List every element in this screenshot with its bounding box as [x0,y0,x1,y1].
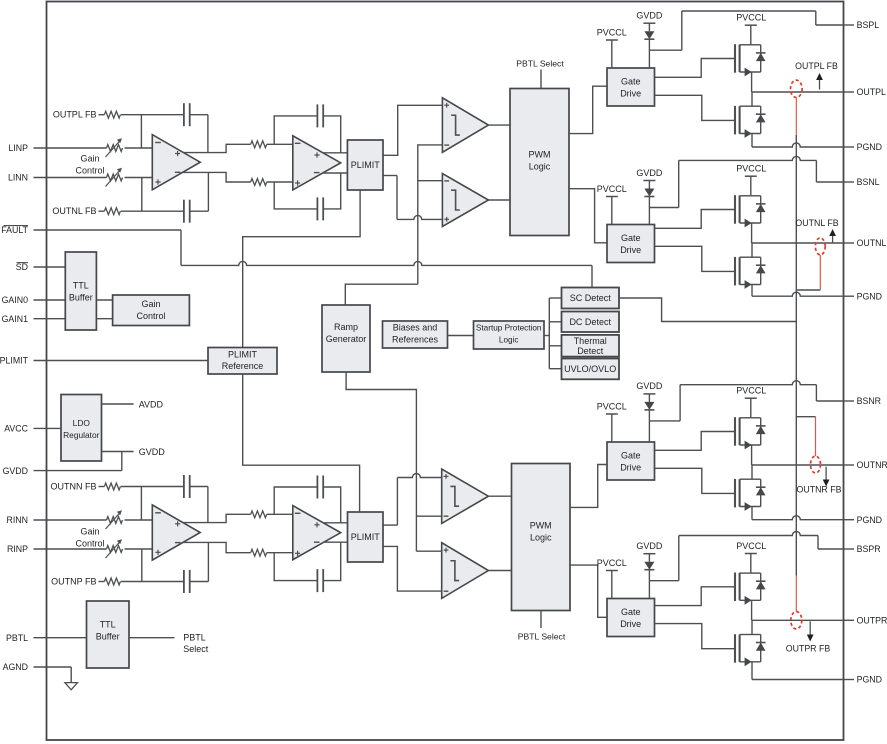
transistor Q8 drain wire [740,634,752,636]
transistor Q6 drain wire [740,478,752,480]
transistor Q3 (high-side) gate [734,195,736,224]
output current sense line (vertical) [795,135,797,576]
svg-text:Generator: Generator [326,334,367,344]
pin GVDD stub wire [34,470,122,472]
sense branch to OUTNR [796,416,815,418]
wire AVDD output [102,403,134,405]
comparator U8 (bottom) [442,543,489,599]
wire TTL buffer to Gain Control (GAIN0 row) [96,299,112,301]
svg-text:SC Detect: SC Detect [570,293,612,303]
svg-text:Gate: Gate [621,233,641,243]
svg-text:GVDD: GVDD [139,447,166,457]
pin RINP stub wire [34,548,107,550]
pin PLIMIT stub wire [34,360,209,362]
current sense ellipse OUTNR [811,456,821,473]
wire PWM to Gate Drive 4 [570,565,607,617]
wire GVDD junction into Gate Drive 2 (OUTNL) [648,208,650,225]
svg-text:OUTNL FB: OUTNL FB [52,206,96,216]
wire U2 upper feedback to output [323,116,341,153]
svg-text:OUTNP FB: OUTNP FB [51,577,96,587]
wire ramp bus to U7-/U8+ inputs [416,515,441,517]
op-amp U1 (left input amp) [152,135,200,190]
svg-text:DC Detect: DC Detect [569,317,611,327]
variable resistor (LINN gain) [107,174,123,181]
block PLIMIT (bottom) [348,512,384,562]
svg-text:PBTL Select: PBTL Select [516,59,564,69]
block Startup Protection Logic [474,321,545,349]
svg-text:Gain: Gain [80,154,99,164]
svg-text:GAIN0: GAIN0 [2,295,29,305]
wire Ramp Generator to top comparator bus [345,284,418,305]
pin BSPL stub wire [844,24,855,26]
svg-text:BSNR: BSNR [857,396,881,406]
transistor Q4 source to PGND [740,284,761,286]
svg-text:GVDD: GVDD [3,466,28,476]
svg-text:Drive: Drive [620,619,641,629]
svg-text:SD: SD [16,262,28,272]
pin SD stub wire [34,266,66,268]
block PLIMIT Reference [208,348,277,375]
svg-text:PBTL: PBTL [183,633,206,643]
wire cap to output node (bottom) [190,210,209,212]
svg-text:Buffer: Buffer [69,293,93,303]
sense line red segment (OUTPL) [795,97,797,135]
transistor Q3 source to output [740,222,761,224]
wire PLIMIT Reference down to PLIMIT(bottom) [243,374,360,512]
wire U2 upper feedback [274,116,317,144]
svg-text:Control: Control [75,539,104,549]
resistor on OUTNP FB line [99,581,105,583]
wire U2 outputs to PLIMIT [323,152,348,154]
resistor R (to U6 non-inverting) [251,549,267,556]
pin BSNL stub wire [844,181,855,183]
pin LINP stub wire [34,147,107,149]
resistor R (to U6 inverting) [251,511,267,518]
wire U6 upper feedback to output [323,487,341,523]
feedback arrow OUTNL FB [832,234,834,244]
capacitor C (OUTNL feedback) [183,200,185,223]
wire AGND to ground [70,667,72,683]
svg-text:Detect: Detect [577,346,604,356]
pin OUTNL stub wire [844,242,855,244]
resistor on OUTNN FB line [99,486,105,488]
wire PBTL Select stub (top) [540,70,542,89]
GVDD supply bar (section 2 (OUTNL)) [643,180,655,182]
wire SC Detect to output sense line [619,298,796,322]
wire gate drive output to high-side gate (section 3 (OUTNR)) [655,432,736,451]
pin OUTPR stub wire [844,619,855,621]
transistor Q7 (high-side) gate [734,573,736,602]
svg-text:BSNL: BSNL [857,177,880,187]
pin AGND stub wire [34,666,72,668]
body diode (low-side 2 (OUTNL)) [752,256,761,258]
wire GVDD junction into Gate Drive 4 (OUTPR) [648,581,650,599]
wire LINP to op-amp [125,147,153,149]
wire to PGND pin (section 4 (OUTPR)) [752,679,844,681]
wire gate drive output to high-side gate (section 2 (OUTNL)) [655,210,736,229]
body diode (low-side 3 (OUTNR)) [752,478,761,480]
transistor Q7 drain to PVCCL [740,572,751,574]
wire FB junction to RINN [140,487,142,521]
wire U1 lower output [183,172,251,182]
current sense ellipse OUTPL [791,80,803,97]
svg-text:RINN: RINN [6,515,28,525]
wire U6 lower feedback to output [323,542,341,580]
svg-text:PWM: PWM [530,521,552,531]
block PWM Logic (bottom) [512,464,571,611]
svg-text:Thermal: Thermal [574,336,607,346]
pin OUTNR stub wire [844,464,855,466]
feedback arrow OUTPR FB [809,621,811,636]
op-amp U2 (left second stage) [293,136,341,190]
op-amp U6 (right second stage) [293,506,341,560]
pin FAULT stub wire [34,229,182,231]
svg-text:BSPR: BSPR [857,544,881,554]
resistor R (to U2 non-inverting) [251,179,267,186]
sense red segment (OUTNL) [819,255,821,290]
wire PWM to Gate Drive 3 [570,465,607,508]
svg-text:PGND: PGND [857,515,882,525]
svg-text:PLIMIT: PLIMIT [351,532,381,542]
svg-text:LINP: LINP [8,143,28,153]
resistor on OUTPL FB line [99,114,105,116]
wire OUTNP FB rail [121,581,184,583]
current sense ellipse OUTNL [815,238,825,255]
svg-text:OUTPR: OUTPR [857,616,887,626]
wire bootstrap junction to BS pin (section 1 (OUTPL)) [649,49,681,51]
transistor Q8 (low-side) gate [734,634,736,663]
svg-text:PVCCL: PVCCL [736,164,766,174]
ground symbol AGND [65,683,78,690]
block Thermal Detect [562,335,620,357]
svg-text:PVCCL: PVCCL [597,184,627,194]
wire U6 lower feedback [274,553,317,581]
svg-text:Control: Control [136,311,165,321]
transistor Q6 source to PGND [740,506,761,508]
svg-text:GVDD: GVDD [636,541,663,551]
svg-text:PVCCL: PVCCL [597,558,627,568]
transistor Q4 (low-side) gate [734,257,736,286]
wire PBTL Select stub (bottom) [540,611,542,629]
block DC Detect [562,312,620,333]
capacitor C (U6 upper feedback) [316,476,318,499]
pin PGND stub wire [844,519,855,521]
pin GAIN1 stub wire [34,318,66,320]
wire to U6 inverting input [267,513,293,515]
block Ramp Generator [322,305,370,372]
wire protection bus to detect blocks [544,335,549,337]
svg-text:PBTL: PBTL [6,633,28,643]
pin PGND stub wire [844,295,855,297]
capacitor C (U6 lower feedback) [316,569,318,592]
wire RINP to op-amp [125,548,153,550]
wire U5 upper output [183,514,251,522]
svg-text:References: References [392,335,439,345]
wire PLIMIT out to comparator U7+ (hop over ramp bus) [383,524,397,526]
wire U6 upper feedback [274,487,317,514]
wire bootstrap junction to BS pin (section 4 (OUTPR)) [649,580,678,582]
wire output node to OUT pin (section 3 (OUTNR)) [752,464,844,466]
svg-text:GVDD: GVDD [636,381,663,391]
body diode (high-side 3 (OUTNR)) [751,417,761,419]
svg-text:PGND: PGND [857,675,882,685]
wire LINN junction to OUTNL FB rail [141,178,143,212]
transistor Q8 source to PGND [740,661,761,663]
wire to PGND pin (section 1 (OUTPL)) [752,143,844,147]
wire PWM to Gate Drive 2 [569,189,607,243]
wire U2 lower feedback [274,182,317,209]
svg-text:Logic: Logic [499,336,519,345]
PVCCL supply stub Gate Drive 1 (OUTPL) [606,39,618,41]
comparator U3 (top) [442,98,488,153]
wire cap to output node (U5 lower) [190,581,209,583]
body diode (high-side 4 (OUTPR)) [751,572,761,574]
feedback arrow OUTPL FB [819,78,821,90]
capacitor C (OUTNN feedback) [183,475,185,498]
wire bootstrap junction to BS pin (section 3 (OUTNR)) [649,420,680,422]
block Gate Drive 2 (OUTNL) [607,225,655,263]
block SC Detect [562,288,620,309]
feedback arrow OUTNR FB [825,467,827,482]
wire to U2 inverting input [267,143,293,145]
variable resistor (RINN gain) [107,517,123,524]
svg-text:OUTNL: OUTNL [857,238,887,248]
svg-text:TTL: TTL [73,281,89,291]
block Gate Drive 4 (OUTPR) [607,599,655,637]
svg-text:GVDD: GVDD [636,11,663,21]
block TTL Buffer (bottom) [87,601,130,668]
transistor Q1 drain to PVCCL [740,44,751,46]
body diode (high-side 1 (OUTPL)) [751,44,761,46]
wire OUTPL FB rail [121,114,184,116]
wire cap to output node (U5 upper) [190,486,208,488]
transistor Q2 source to PGND [740,133,761,135]
transistor Q4 drain wire [740,256,752,258]
svg-text:AVDD: AVDD [139,399,164,409]
transistor Q3 drain to PVCCL [740,195,751,197]
wire GVDD output [102,451,134,453]
sense red segment (OUTPR) [795,576,797,612]
PVCCL supply stub Gate Drive 4 (OUTPR) [606,570,618,572]
svg-text:Gain: Gain [141,299,160,309]
block PLIMIT (left) [347,140,383,190]
wire U2 lower feedback to output [323,173,341,209]
wire to U2 non-inverting input [267,181,293,183]
svg-text:Startup Protection: Startup Protection [476,324,542,333]
transistor Q7 source to output [740,599,761,601]
capacitor C (U2 lower feedback) [316,197,318,220]
wire LINN to op-amp [125,177,153,179]
svg-text:Select: Select [183,644,209,654]
bootstrap diode D3 [648,394,650,402]
svg-text:PBTL Select: PBTL Select [518,632,566,642]
wire RINN to op-amp [125,519,153,521]
svg-text:Gate: Gate [621,607,641,617]
block PWM Logic (top) [510,89,569,236]
pin RINN stub wire [34,519,107,521]
wire to PGND pin (section 3 (OUTNR)) [752,516,844,520]
body diode (high-side 2 (OUTNL)) [751,195,761,197]
svg-text:PLIMIT: PLIMIT [351,160,381,170]
bootstrap diode D2 [648,181,650,189]
svg-text:Gain: Gain [80,527,99,537]
svg-text:OUTPL FB: OUTPL FB [795,61,838,71]
svg-text:PVCCL: PVCCL [597,28,627,38]
wire U1 upper output [183,144,251,152]
wire FAULT net to SC Detect (hops over plimit+ramp verticals) [180,230,182,265]
svg-text:PWM: PWM [529,150,551,160]
wire PLIMIT upper out to comparator U3+ [383,105,442,155]
svg-text:TTL: TTL [100,620,116,630]
svg-text:Buffer: Buffer [96,632,120,642]
wire output node to OUT pin (section 4 (OUTPR)) [752,619,844,621]
wire OUTNL FB rail [121,210,184,212]
block Gate Drive 3 (OUTNR) [607,442,655,480]
wire U3 output to PWM logic [488,124,510,126]
GVDD supply bar (section 4 (OUTPR)) [643,553,655,555]
block LDO Regulator [61,395,102,462]
wire PLIMIT out to comparator U8- [383,546,442,591]
svg-text:PGND: PGND [857,142,882,152]
GVDD supply bar (section 1 (OUTPL)) [643,22,655,24]
sense branch to OUTNL [796,289,820,291]
svg-text:PVCCL: PVCCL [736,541,766,551]
sense red segment (OUTNR) [815,417,817,456]
wire to U6 non-inverting input [267,552,293,554]
variable resistor (RINP gain) [107,546,123,553]
PVCCL supply stub Gate Drive 3 (OUTNR) [606,413,618,415]
op-amp U5 (right input amp) [152,505,200,560]
capacitor C (OUTPL feedback) [183,103,185,126]
svg-text:PVCCL: PVCCL [736,13,766,23]
resistor on OUTNL FB line [99,210,105,212]
PVCCL supply stub Gate Drive 2 (OUTNL) [606,196,618,198]
svg-text:OUTNL FB: OUTNL FB [795,218,838,228]
svg-text:Gate: Gate [621,451,641,461]
svg-text:UVLO/OVLO: UVLO/OVLO [564,364,616,374]
wire GVDD pin to GVDD net [121,452,123,471]
body diode (low-side 1 (OUTPL)) [752,105,761,107]
svg-text:Logic: Logic [529,162,551,172]
wire Ramp Generator to bottom comparator bus [346,372,416,551]
transistor Q5 drain to PVCCL [740,417,751,419]
wire TTL buffer to Gain Control (GAIN1 row) [96,318,112,320]
svg-text:PLIMIT: PLIMIT [0,356,29,366]
svg-text:Biases and: Biases and [393,323,438,333]
wire RINP junction to OUTNP FB rail [141,549,143,582]
svg-text:PVCCL: PVCCL [597,402,627,412]
wire FB junction to LINP [140,115,142,148]
capacitor C (U2 upper feedback) [316,104,318,127]
wire output node to OUT pin (section 1 (OUTPL)) [752,91,844,93]
block Biases and References [383,321,448,348]
svg-text:Logic: Logic [530,533,552,543]
svg-text:FAULT: FAULT [1,225,28,235]
svg-text:AVCC: AVCC [4,424,28,434]
wire U5 lower output [183,542,251,552]
wire output node down to low-side drain (section 3 (OUTNR)) [751,465,753,479]
bootstrap diode D4 [648,554,650,562]
GVDD supply bar (section 3 (OUTNR)) [643,393,655,395]
svg-text:Control: Control [75,166,104,176]
pin BSNR stub wire [844,400,855,402]
pin PBTL stub wire [34,637,87,639]
block TTL Buffer (top) [65,252,96,330]
pin LINN stub wire [34,177,107,179]
svg-text:GVDD: GVDD [636,168,663,178]
svg-text:LDO: LDO [73,418,91,428]
svg-text:Ramp: Ramp [334,322,358,332]
svg-text:OUTPL FB: OUTPL FB [53,110,97,120]
transistor Q6 (low-side) gate [734,479,736,508]
block UVLO/OVLO [562,359,620,380]
wire gate drive output to high-side gate (section 4 (OUTPR)) [655,587,736,606]
variable resistor (LINP gain) [107,145,123,152]
svg-text:PVCCL: PVCCL [736,386,766,396]
wire cap to output node [190,114,208,116]
comparator U4 [442,174,488,227]
svg-text:OUTNR: OUTNR [857,460,887,470]
comparator U7 (bottom) [442,469,489,523]
pin AVCC stub wire [34,427,62,429]
wire gate drive output to low-side gate (section 1 (OUTPL)) [655,95,736,120]
transistor Q5 (high-side) gate [734,417,736,446]
transistor Q1 source to output [740,71,761,73]
block Gain Control [113,295,190,326]
svg-text:PLIMIT: PLIMIT [228,350,258,360]
svg-text:LINN: LINN [8,173,28,183]
wire gate drive output to low-side gate (section 3 (OUTNR)) [655,468,736,493]
bootstrap diode D1 [648,23,650,31]
wire ramp bus to U3/U4 inverting inputs [418,145,443,284]
wire PLIMIT lower out to comparator U4+ (hop over ramp bus) [383,175,397,177]
pin OUTPL stub wire [844,91,855,93]
wire to PGND pin (section 2 (OUTNL)) [752,292,844,296]
svg-text:Gate: Gate [621,77,641,87]
body diode (low-side 4 (OUTPR)) [752,634,761,636]
svg-text:Drive: Drive [620,89,641,99]
svg-text:GAIN1: GAIN1 [2,314,29,324]
capacitor C (OUTNP feedback) [183,570,185,593]
wire GVDD junction into Gate Drive 1 (OUTPL) [648,50,650,68]
wire gate drive output to high-side gate (section 1 (OUTPL)) [655,59,736,78]
svg-text:OUTPR FB: OUTPR FB [786,644,831,654]
svg-text:AGND: AGND [3,662,28,672]
svg-text:PGND: PGND [857,291,882,301]
svg-text:Regulator: Regulator [63,430,100,440]
svg-text:BSPL: BSPL [857,20,880,30]
wire output node to OUT pin (section 2 (OUTNL)) [752,242,844,244]
wire PWM to Gate Drive 1 [569,86,607,133]
transistor Q2 (low-side) gate [734,106,736,134]
wire gate drive output to low-side gate (section 4 (OUTPR)) [655,624,736,649]
svg-text:OUTNR FB: OUTNR FB [797,485,842,495]
block Gate Drive 1 (OUTPL) [607,68,655,106]
wire OUTNN FB rail [121,486,184,488]
wire gate drive output to low-side gate (section 2 (OUTNL)) [655,246,736,271]
pin PGND stub wire [844,146,855,148]
current sense ellipse OUTPR [791,612,802,629]
wire output node down to low-side drain (section 2 (OUTNL)) [751,243,753,257]
wire output node down to low-side drain (section 4 (OUTPR)) [751,620,753,634]
wire output node down to low-side drain (section 1 (OUTPL)) [751,92,753,106]
pin PGND stub wire [844,679,855,681]
transistor Q1 (high-side) gate [734,44,736,72]
wire U6 outputs to PLIMIT (bottom) [323,522,348,524]
svg-text:Reference: Reference [222,361,264,371]
wire PLIMIT(top) down to PLIMIT Reference [243,190,360,348]
svg-text:Drive: Drive [620,463,641,473]
